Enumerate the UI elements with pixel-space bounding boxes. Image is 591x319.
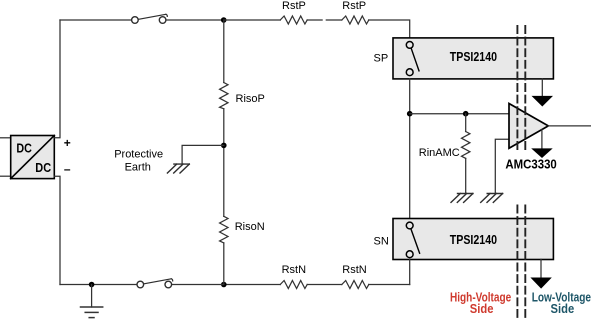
wire: op-amp negative input to earth <box>495 139 509 193</box>
wire: between RstP resistors (right piece) <box>326 19 342 21</box>
label Low-Voltage Side <box>532 290 591 316</box>
supply arrow (top, into AMC3330) <box>532 79 554 107</box>
svg-text:Earth: Earth <box>125 162 151 174</box>
isolation barrier dashed lines (top pair) <box>517 26 525 153</box>
wire: DC/DC - lead down to bottom rail <box>54 176 60 284</box>
label Protective Earth <box>114 148 163 173</box>
node: junction at op-amp input wire <box>407 111 413 117</box>
resistor RinAMC <box>462 114 470 194</box>
wire: top rail to RisoP node <box>166 19 224 21</box>
svg-text:TPSI2140: TPSI2140 <box>450 50 497 64</box>
wire: GND node to switch S2 <box>60 284 137 286</box>
wire: between RstN resistors <box>307 284 342 286</box>
wire: RisoN node to RstN1 <box>224 284 280 286</box>
resistor RstP (second) <box>342 16 369 24</box>
svg-text:DC: DC <box>16 141 32 155</box>
node: bottom junction RisoN <box>221 282 227 288</box>
TPSI2140 bottom isolated switch U3 <box>393 219 553 260</box>
wire: op-amp output <box>548 125 591 127</box>
svg-text:SP: SP <box>374 53 389 65</box>
wire: RisoP/RisoN branch (vertical through both) <box>223 20 225 285</box>
svg-text:SN: SN <box>374 236 389 248</box>
op-amp U2 AMC3330 <box>509 104 548 149</box>
svg-text:RisoN: RisoN <box>235 221 265 233</box>
svg-text:RstP: RstP <box>342 0 366 12</box>
wire: to protective earth <box>182 145 224 164</box>
svg-text:Protective: Protective <box>114 148 163 160</box>
svg-text:+: + <box>64 136 71 150</box>
resistor RisoN <box>220 216 228 243</box>
wire: between RstP resistors (left piece) <box>307 19 322 21</box>
label High-Voltage Side <box>450 290 511 316</box>
wire: U3 bottom pin to bottom rail <box>409 259 411 284</box>
resistor RstN (first) <box>280 281 307 289</box>
svg-text:TPSI2140: TPSI2140 <box>450 233 497 247</box>
wire: DC/DC + lead up to top rail <box>54 20 60 138</box>
wire: DC/DC left input stub bottom <box>0 175 11 177</box>
wire: bottom rail right segment <box>369 284 410 286</box>
node: RinAMC junction <box>463 111 469 117</box>
switch S1 (top disconnect) <box>132 14 168 23</box>
svg-text:–: – <box>64 162 71 176</box>
wire: U1 bottom pin down to U3 top pin <box>409 79 411 219</box>
svg-text:RstN: RstN <box>342 264 367 276</box>
supply arrow (bottom right, low-voltage side) <box>530 278 551 289</box>
svg-text:RstP: RstP <box>282 0 306 12</box>
DC/DC converter <box>11 136 55 179</box>
earth ground (op-amp negative input) <box>481 194 503 203</box>
earth ground (below RinAMC) <box>451 194 473 203</box>
wire: to op-amp positive input <box>410 113 509 115</box>
svg-text:Side: Side <box>551 302 575 316</box>
ground symbol (power ground) <box>81 285 103 318</box>
wire: RstP2 to TPSI2140 top pin <box>369 20 410 38</box>
resistor RisoP <box>220 83 228 109</box>
resistor RstN (second) <box>342 281 369 289</box>
switch S2 (bottom disconnect) <box>137 279 173 288</box>
svg-text:AMC3330: AMC3330 <box>505 158 556 172</box>
svg-text:DC: DC <box>35 161 51 175</box>
node: ground junction <box>89 282 95 288</box>
svg-text:RisoP: RisoP <box>236 93 265 105</box>
node: protective earth junction <box>221 143 227 149</box>
wire: DC/DC left input stub top <box>0 137 11 139</box>
wire: switch S2 to RisoN node <box>172 284 224 286</box>
svg-text:Side: Side <box>470 302 494 316</box>
earth ground (protective earth) <box>167 164 189 173</box>
wire: top rail left segment <box>60 19 131 21</box>
wire: U3 right pin down <box>540 259 542 278</box>
resistor RstP (first) <box>280 16 307 24</box>
wire: node to RstP1 <box>224 19 281 21</box>
node: top junction <box>221 17 227 23</box>
TPSI2140 top isolated switch U1 <box>393 38 553 79</box>
svg-text:RstN: RstN <box>282 264 307 276</box>
svg-text:RinAMC: RinAMC <box>419 147 460 159</box>
isolation barrier dashed lines (bottom pair) <box>517 206 525 319</box>
supply arrow (bottom, from AMC3330) <box>531 130 553 159</box>
